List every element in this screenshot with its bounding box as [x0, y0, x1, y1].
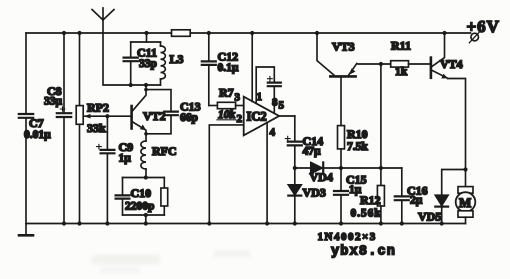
- svg-text:RP2: RP2: [87, 101, 109, 115]
- svg-text:IC2: IC2: [247, 110, 267, 124]
- node C10 bottom: [144, 213, 148, 217]
- ground: [19, 224, 33, 236]
- motor M: [456, 170, 476, 224]
- svg-text:ybx8.cn: ybx8.cn: [331, 245, 396, 260]
- node ground C9: [105, 221, 109, 225]
- node rail tank tap: [144, 31, 148, 35]
- node ground VD3: [293, 221, 297, 225]
- svg-text:5: 5: [279, 100, 285, 112]
- wire node A up to R11 row: [380, 64, 382, 168]
- wire IC2 pin1 to rail: [251, 33, 253, 101]
- svg-text:VT4: VT4: [440, 57, 463, 71]
- svg-text:3: 3: [235, 92, 241, 104]
- node rail C12: [207, 31, 211, 35]
- transistor VT2: [132, 85, 166, 141]
- capacitor C9: [97, 116, 134, 223]
- svg-text:4: 4: [270, 127, 276, 139]
- wire RP2 wiper to VT2 base: [84, 115, 131, 117]
- capacitor C13: [146, 90, 201, 134]
- node ground RP2: [77, 221, 81, 225]
- wire bottom ground rail: [26, 223, 466, 225]
- node R11 row to detector: [379, 62, 383, 66]
- potentiometer RP2: [76, 33, 109, 224]
- svg-text:VT2: VT2: [143, 109, 166, 123]
- resistor R12: [351, 168, 385, 224]
- svg-text:8: 8: [272, 97, 278, 109]
- svg-text:0.1μ: 0.1μ: [218, 62, 239, 74]
- capacitor C14: [285, 116, 323, 168]
- wire tank top tap to rail: [146, 33, 148, 42]
- svg-text:R7: R7: [219, 86, 234, 100]
- node rail RP2: [77, 31, 81, 35]
- op-amp IC2: [244, 97, 279, 136]
- svg-text:R10: R10: [347, 127, 368, 141]
- wire tank top: [131, 41, 161, 43]
- svg-text:33μ: 33μ: [44, 96, 63, 108]
- node rail C8: [62, 31, 66, 35]
- diode VD3: [288, 168, 326, 224]
- svg-text:33k: 33k: [87, 121, 106, 135]
- inductor L3: [161, 42, 184, 85]
- svg-text:1N4002×3: 1N4002×3: [318, 231, 377, 243]
- svg-text:R12: R12: [360, 193, 381, 207]
- node rail pin1: [250, 31, 254, 35]
- svg-text:+6V: +6V: [467, 17, 500, 36]
- capacitor C15: [334, 168, 367, 224]
- svg-text:66p: 66p: [180, 112, 198, 124]
- svg-text:C7: C7: [29, 116, 44, 130]
- wire VT4 emitter down: [448, 79, 466, 170]
- node ground VD5: [440, 221, 444, 225]
- resistor R11: [391, 39, 430, 79]
- svg-text:47μ: 47μ: [303, 146, 322, 158]
- svg-text:1k: 1k: [395, 66, 408, 78]
- wire IC2 pin4 to ground: [266, 123, 268, 224]
- svg-text:1μ: 1μ: [119, 153, 132, 165]
- node C10 top: [144, 175, 148, 179]
- svg-text:0.01μ: 0.01μ: [24, 129, 51, 141]
- capacitor C11 (tank): [124, 42, 157, 85]
- svg-text:VT3: VT3: [332, 40, 355, 54]
- svg-text:33p: 33p: [139, 58, 157, 70]
- node base-C9 junction: [105, 114, 109, 118]
- capacitor C16: [395, 168, 428, 224]
- wire +6V top rail: [26, 32, 471, 34]
- wire IC2 output: [279, 115, 295, 117]
- inductor RFC: [141, 141, 177, 178]
- svg-text:C10: C10: [131, 186, 152, 200]
- node ground C8: [62, 221, 66, 225]
- node tank bottom C11 junction: [129, 83, 133, 87]
- diode VD5: [418, 170, 466, 224]
- svg-text:L3: L3: [170, 52, 184, 66]
- svg-text:RFC: RFC: [152, 144, 177, 158]
- node ground pin4: [265, 221, 269, 225]
- svg-text:R11: R11: [391, 39, 411, 53]
- node ground pin2: [207, 221, 211, 225]
- wire VT3 emitter row: [357, 63, 391, 65]
- wire antenna feed down to tank bottom: [103, 33, 161, 85]
- svg-text:0.56k: 0.56k: [351, 208, 382, 220]
- capacitor C10 block with resonator: [116, 178, 168, 224]
- node ground C10: [144, 221, 148, 225]
- svg-text:VD3: VD3: [303, 186, 326, 200]
- node emitter-C13: [144, 132, 148, 136]
- svg-text:M: M: [459, 195, 471, 210]
- antenna: [92, 8, 114, 33]
- resistor R10: [338, 78, 369, 168]
- node ground C16: [400, 221, 404, 225]
- node ground C15: [339, 221, 343, 225]
- svg-text:7.5k: 7.5k: [347, 141, 368, 153]
- node ground R12: [379, 221, 383, 225]
- svg-text:10k: 10k: [218, 109, 236, 121]
- transistor VT4: [431, 33, 463, 79]
- svg-text:2200p: 2200p: [125, 201, 154, 213]
- svg-text:2μ: 2μ: [410, 195, 423, 207]
- capacitor C8: [44, 33, 71, 224]
- capacitor on IC2 pin8: [256, 67, 281, 113]
- wire node A row to C16: [341, 167, 402, 169]
- node rail VT4: [442, 31, 446, 35]
- transistor VT3: [317, 33, 357, 76]
- svg-text:2: 2: [237, 113, 243, 125]
- resistor on top rail (unlabeled): [172, 30, 191, 37]
- wire (page smudges): [92, 250, 250, 273]
- terminal +6V: [467, 17, 500, 43]
- capacitor C7: [19, 33, 51, 224]
- node rail VT3: [315, 31, 319, 35]
- node motor-VD5 junction: [463, 167, 467, 171]
- svg-text:VD5: VD5: [418, 210, 441, 224]
- svg-text:VD4: VD4: [310, 170, 333, 184]
- capacitor C12: [202, 33, 239, 106]
- node C14-VD4-VD3 junction: [293, 166, 297, 170]
- wire IC2 pin2 to ground: [209, 125, 243, 224]
- node tank bottom collector tap: [144, 83, 148, 87]
- diode VD4: [295, 162, 341, 184]
- resistor R7: [209, 86, 244, 122]
- node R12 top: [379, 166, 383, 170]
- node collector-C13: [144, 88, 148, 92]
- svg-text:1: 1: [257, 91, 263, 103]
- node detector A: [339, 166, 343, 170]
